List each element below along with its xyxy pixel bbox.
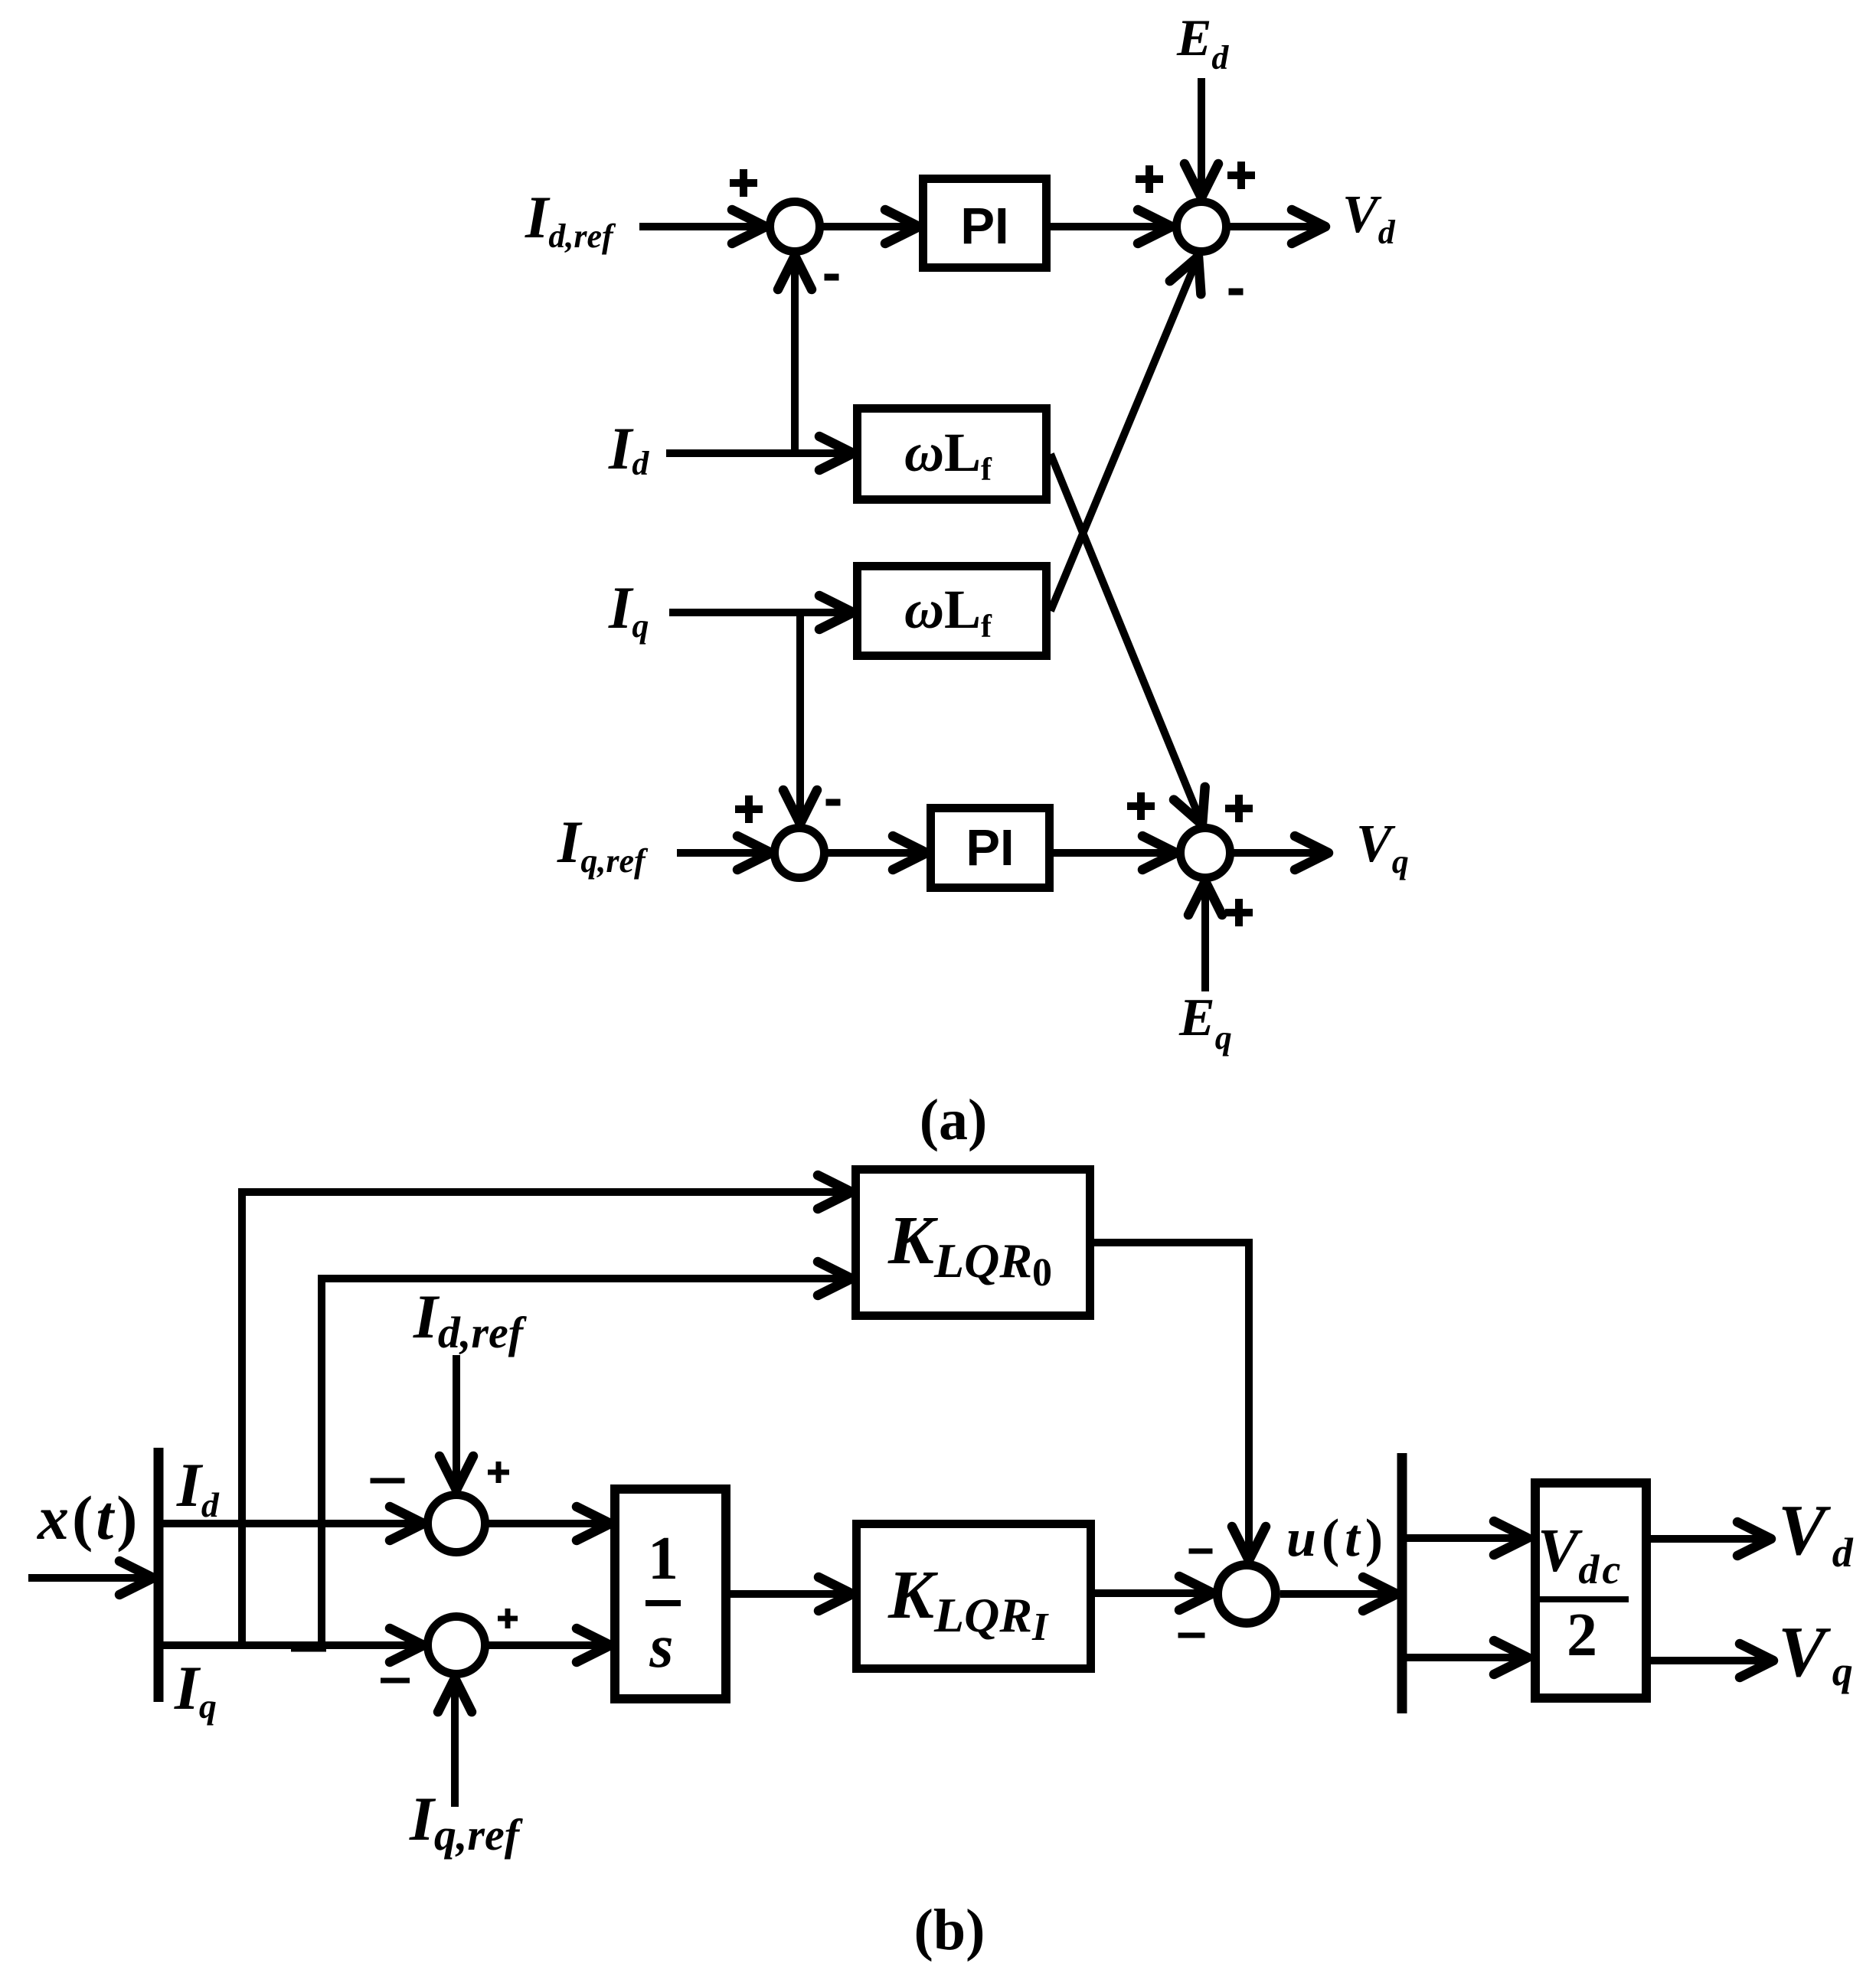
svg-text:x(t): x(t) [37,1483,140,1553]
minus sign at S3 feedback input [826,799,841,806]
svg-text:2: 2 [1567,1602,1597,1669]
block PI (q-axis) [931,808,1050,888]
summing junction S6 (q-axis error, b) [428,1617,485,1674]
wire S3 to PI block (q-axis) [828,836,927,870]
summing junction S3 (q-axis error) [775,828,825,878]
wire I_q feedback down to S3 [783,612,817,824]
wire S4 to output V_q [1234,836,1329,870]
input label I_d,ref (a) [525,184,616,255]
output bus bar (right) [1397,1453,1407,1713]
summing junction S1 (d-axis error) [770,202,820,252]
svg-text:ωLf: ωLf [904,579,992,645]
wire K_LQR_I to S7 [1095,1576,1213,1610]
svg-text:s: s [649,1613,673,1680]
block K_LQR_I (integral LQR gain) [857,1524,1091,1669]
svg-text:Vq: Vq [1778,1612,1853,1694]
wire S7 to output bus u(t) [1280,1577,1397,1611]
plus sign at S1 input [730,169,757,197]
block omega-L_f (lower) [858,567,1047,656]
block K_LQR0 (proportional LQR gain) [856,1170,1090,1316]
svg-text:Iq: Iq [174,1653,217,1726]
minus sign at S7 top input [1189,1549,1213,1554]
svg-text:PI: PI [966,819,1014,877]
plus sign at S4 E_q input [1225,899,1253,926]
block Vdc/2 (modulation gain) [1535,1483,1646,1698]
caption (a) [920,1088,988,1152]
wire I_d feedback up to S1 [778,256,812,453]
wire PI to summing junction S2 [1051,210,1172,243]
minus sign at S2 cross input [1229,289,1244,296]
svg-text:Vd: Vd [1342,185,1396,251]
summing junction S5 (d-axis error, b) [428,1495,485,1553]
bus component label I_d (b) [176,1450,220,1524]
bus component label I_q (b) [174,1653,217,1726]
output label V_d (a) [1342,185,1396,251]
wire S1 to PI block (d-axis) [822,210,919,243]
output label V_q (a) [1356,815,1409,880]
input label I_q (a) [608,574,649,645]
svg-text:1: 1 [648,1525,678,1592]
svg-text:(a): (a) [920,1088,988,1152]
block omega-L_f (upper) [858,409,1047,500]
plus sign at S5 reference input [488,1462,509,1483]
minus sign at S6 rail input [381,1678,410,1684]
svg-text:Vd: Vd [1778,1491,1854,1576]
wire E_q to S4 [1188,881,1222,991]
wire I_q tap up to K_LQR0 second input [322,1262,851,1649]
plus sign at S3 input [735,795,763,823]
block integrator 1/s [615,1489,726,1699]
svg-text:Id: Id [608,415,649,482]
svg-text:Iq,ref: Iq,ref [409,1784,524,1860]
svg-text:Iq,ref: Iq,ref [557,808,649,880]
wire I_d,ref to summing junction S1 [639,210,766,243]
wire K_LQR0 output down to S7 [1094,1243,1266,1560]
summing junction S4 (V_q output sum) [1181,828,1231,878]
wire I_d to block wL_f upper [666,436,853,470]
wire S2 to output V_d [1230,210,1325,243]
wire E_d to S2 [1185,78,1218,198]
wire I_q,ref to summing junction S3 [677,836,771,870]
summing junction S7 (u(t) sum) [1217,1565,1276,1623]
svg-text:Eq: Eq [1178,988,1232,1057]
output label V_q (b) [1778,1612,1853,1694]
input label I_q,ref (b) [409,1784,524,1860]
signal label u(t) [1286,1509,1388,1568]
wire S5 to integrator [485,1507,610,1540]
plus sign at S6 output side [498,1609,518,1628]
plus sign at S4 cross input [1225,795,1253,822]
input label I_d,ref (b) [413,1282,528,1357]
minus sign at S5 rail input [371,1478,405,1484]
wire x(t) into state bus [28,1561,153,1595]
minus sign at S7 left input [1178,1633,1205,1638]
wire I_q rail to S6 [159,1628,423,1662]
svg-text:ωLf: ωLf [904,422,992,488]
input label E_q [1178,988,1232,1057]
wire I_q,ref up to S6 [438,1678,472,1807]
wire cross-coupling from lower wL_f up to S2 [1051,256,1201,611]
wire I_d,ref down to S5 [440,1355,473,1490]
summing junction S2 (V_d output sum) [1177,202,1227,252]
plus sign at S4 left input [1127,792,1155,820]
junction overlap on I_q rail [291,1644,326,1652]
wire integrator to K_LQR_I [730,1577,852,1611]
wire Vdc/2 to output V_q (b) [1649,1644,1773,1677]
wire PI to summing junction S4 [1054,836,1176,870]
wire cross-coupling from upper wL_f down to S4 [1051,454,1205,825]
wire I_d rail to S5 [159,1507,423,1540]
svg-text:Id,ref: Id,ref [413,1282,528,1357]
input label I_q,ref (a) [557,808,649,880]
state demux bus bar (left) [154,1448,164,1702]
wire S6 to integrator [485,1628,610,1662]
svg-text:Id: Id [176,1450,220,1524]
caption (b) [914,1898,985,1962]
plus sign at S2 E_d input [1227,162,1255,189]
svg-text:u(t): u(t) [1286,1509,1388,1568]
output label V_d (b) [1778,1491,1854,1576]
svg-text:Id,ref: Id,ref [525,184,616,255]
wire Vdc/2 to output V_d (b) [1649,1522,1771,1556]
block PI (d-axis) [923,179,1047,268]
input label I_d (a) [608,415,649,482]
plus sign at S2 left input [1136,165,1163,193]
wire bus to Vdc/2 upper input [1407,1521,1528,1555]
svg-text:(b): (b) [914,1898,985,1962]
wire I_q to block wL_f lower [669,596,853,629]
svg-text:PI: PI [960,198,1008,255]
minus sign at S1 feedback input [825,274,839,281]
svg-text:Ed: Ed [1176,8,1229,77]
svg-text:Vq: Vq [1356,815,1409,880]
input label E_d [1176,8,1229,77]
wire I_d tap up to K_LQR0 first input [242,1175,851,1649]
input label x(t) [37,1483,140,1553]
svg-text:Iq: Iq [608,574,649,645]
wire bus to Vdc/2 lower input [1407,1641,1528,1674]
